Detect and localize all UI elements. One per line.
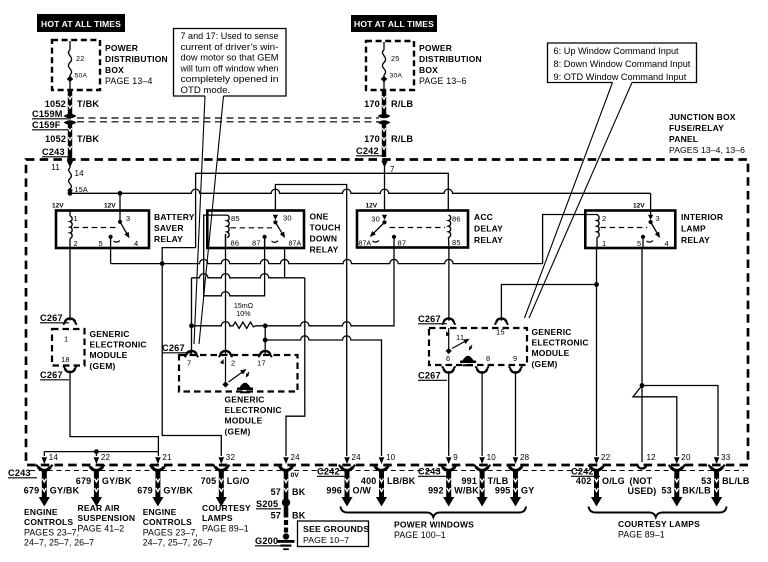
svg-text:LAMP: LAMP	[681, 224, 706, 234]
svg-text:14: 14	[49, 453, 59, 462]
svg-text:dow motor so that GEM: dow motor so that GEM	[181, 53, 279, 64]
svg-text:ELECTRONIC: ELECTRONIC	[225, 405, 282, 415]
svg-text:996: 996	[326, 486, 342, 496]
svg-text:1052: 1052	[45, 99, 66, 109]
svg-text:53: 53	[661, 486, 671, 496]
svg-text:9: OTD Window Command Input: 9: OTD Window Command Input	[554, 72, 687, 82]
svg-text:BK: BK	[292, 487, 306, 497]
svg-text:INTERIOR: INTERIOR	[681, 212, 723, 222]
svg-text:86: 86	[231, 239, 240, 248]
svg-text:1: 1	[602, 239, 606, 248]
svg-text:25: 25	[391, 54, 400, 63]
svg-text:T/LB: T/LB	[488, 476, 509, 486]
svg-text:87: 87	[252, 239, 261, 248]
svg-text:PAGE 13–4: PAGE 13–4	[105, 76, 153, 86]
svg-text:GENERIC: GENERIC	[532, 327, 572, 337]
svg-text:PAGES 23–7,: PAGES 23–7,	[143, 527, 198, 537]
svg-text:991: 991	[461, 476, 477, 486]
svg-text:BL/LB: BL/LB	[722, 476, 750, 486]
svg-text:11: 11	[456, 333, 464, 342]
svg-text:O/W: O/W	[353, 486, 372, 496]
svg-text:705: 705	[201, 476, 217, 486]
svg-text:87A: 87A	[289, 241, 302, 248]
svg-text:3: 3	[656, 214, 660, 223]
svg-text:JUNCTION BOX: JUNCTION BOX	[669, 112, 736, 122]
svg-text:ELECTRONIC: ELECTRONIC	[90, 340, 147, 350]
svg-text:O/LG: O/LG	[602, 476, 625, 486]
svg-text:R/LB: R/LB	[391, 134, 413, 144]
svg-text:10: 10	[487, 453, 497, 462]
svg-text:12: 12	[647, 453, 657, 462]
svg-text:PAGE 100–1: PAGE 100–1	[394, 530, 446, 540]
svg-text:6: 6	[446, 354, 450, 363]
svg-text:RELAY: RELAY	[681, 235, 710, 245]
svg-text:CONTROLS: CONTROLS	[143, 517, 192, 527]
svg-text:T/BK: T/BK	[77, 99, 99, 109]
svg-text:C267: C267	[418, 314, 441, 324]
svg-text:2: 2	[74, 239, 78, 248]
svg-text:12V: 12V	[633, 203, 645, 210]
svg-text:53: 53	[701, 476, 711, 486]
svg-text:679: 679	[76, 476, 92, 486]
svg-text:15A: 15A	[75, 185, 88, 194]
svg-text:POWER: POWER	[419, 43, 452, 53]
svg-text:32: 32	[226, 453, 236, 462]
svg-text:C243: C243	[8, 468, 31, 478]
svg-text:C267: C267	[40, 313, 63, 323]
svg-text:CONTROLS: CONTROLS	[24, 517, 73, 527]
svg-text:USED): USED)	[628, 486, 657, 496]
svg-text:1052: 1052	[45, 134, 66, 144]
svg-text:FUSE/RELAY: FUSE/RELAY	[669, 123, 724, 133]
svg-text:1: 1	[74, 214, 78, 223]
svg-text:RELAY: RELAY	[310, 245, 339, 255]
svg-text:C267: C267	[162, 343, 185, 353]
svg-text:18: 18	[61, 355, 70, 364]
svg-text:LB/BK: LB/BK	[387, 476, 416, 486]
svg-text:GENERIC: GENERIC	[225, 395, 265, 405]
svg-text:R/LB: R/LB	[391, 99, 413, 109]
svg-text:BK/LB: BK/LB	[682, 486, 711, 496]
svg-text:BOX: BOX	[419, 65, 438, 75]
svg-text:21: 21	[162, 453, 172, 462]
svg-text:C243: C243	[418, 467, 441, 477]
svg-text:GY/BK: GY/BK	[163, 486, 193, 496]
svg-text:57: 57	[271, 487, 281, 497]
svg-text:30: 30	[283, 214, 292, 223]
svg-text:400: 400	[361, 476, 377, 486]
svg-text:8: Down Window Command Input: 8: Down Window Command Input	[554, 59, 691, 69]
svg-text:completely opened in: completely opened in	[181, 74, 279, 85]
svg-text:BK: BK	[292, 511, 306, 521]
svg-text:REAR AIR: REAR AIR	[78, 503, 120, 513]
svg-text:HOT AT ALL TIMES: HOT AT ALL TIMES	[41, 19, 121, 29]
svg-text:T/BK: T/BK	[77, 134, 99, 144]
svg-text:MODULE: MODULE	[90, 350, 128, 360]
svg-text:9: 9	[513, 354, 517, 363]
svg-text:12V: 12V	[52, 203, 64, 210]
svg-text:BOX: BOX	[105, 65, 124, 75]
svg-text:PAGE 89–1: PAGE 89–1	[202, 523, 249, 533]
svg-text:24: 24	[352, 453, 362, 462]
svg-text:4: 4	[134, 239, 138, 248]
svg-text:DISTRIBUTION: DISTRIBUTION	[105, 54, 168, 64]
svg-text:SUSPENSION: SUSPENSION	[78, 513, 136, 523]
svg-text:ACC: ACC	[474, 212, 493, 222]
svg-text:7: 7	[390, 165, 395, 174]
svg-text:(NOT: (NOT	[630, 476, 653, 486]
svg-text:TOUCH: TOUCH	[310, 223, 341, 233]
svg-text:24–7, 25–7, 26–7: 24–7, 25–7, 26–7	[143, 537, 213, 547]
svg-text:28: 28	[520, 453, 530, 462]
svg-text:C242: C242	[571, 467, 594, 477]
svg-text:679: 679	[137, 486, 153, 496]
svg-text:OTD mode.: OTD mode.	[181, 85, 231, 96]
svg-text:MODULE: MODULE	[532, 348, 570, 358]
svg-text:85: 85	[231, 214, 240, 223]
svg-text:1: 1	[64, 335, 68, 344]
svg-text:GY: GY	[521, 486, 534, 496]
svg-text:ENGINE: ENGINE	[143, 507, 177, 517]
svg-text:GENERIC: GENERIC	[90, 329, 130, 339]
svg-text:COURTESY: COURTESY	[202, 503, 251, 513]
svg-text:(GEM): (GEM)	[225, 426, 251, 436]
svg-text:PAGE 89–1: PAGE 89–1	[618, 530, 665, 540]
svg-text:3: 3	[126, 214, 130, 223]
svg-text:HOT AT ALL TIMES: HOT AT ALL TIMES	[354, 19, 434, 29]
svg-text:C267: C267	[418, 371, 441, 381]
svg-text:MODULE: MODULE	[225, 416, 263, 426]
svg-text:COURTESY LAMPS: COURTESY LAMPS	[618, 519, 700, 529]
svg-text:(GEM): (GEM)	[532, 359, 558, 369]
svg-text:PAGES 23–7,: PAGES 23–7,	[24, 527, 79, 537]
svg-text:C243: C243	[42, 147, 65, 157]
svg-text:992: 992	[428, 486, 444, 496]
svg-text:170: 170	[364, 134, 380, 144]
svg-text:402: 402	[576, 476, 592, 486]
svg-text:LG/O: LG/O	[227, 476, 250, 486]
svg-text:30A: 30A	[390, 73, 403, 80]
svg-text:PAGE 41–2: PAGE 41–2	[78, 523, 125, 533]
svg-text:10%: 10%	[236, 309, 251, 318]
svg-text:86: 86	[452, 215, 461, 224]
svg-text:GY/BK: GY/BK	[50, 486, 80, 496]
svg-text:8: 8	[486, 354, 490, 363]
svg-text:7: 7	[187, 359, 191, 368]
svg-text:POWER WINDOWS: POWER WINDOWS	[394, 520, 474, 530]
svg-text:RELAY: RELAY	[154, 234, 183, 244]
svg-text:2: 2	[231, 359, 235, 368]
svg-text:PAGE 13–6: PAGE 13–6	[419, 76, 467, 86]
svg-text:C242: C242	[356, 146, 379, 156]
svg-text:ENGINE: ENGINE	[24, 507, 58, 517]
svg-text:ELECTRONIC: ELECTRONIC	[532, 338, 589, 348]
svg-text:PAGE 10–7: PAGE 10–7	[303, 535, 349, 545]
svg-text:W/BK: W/BK	[454, 486, 479, 496]
svg-text:12V: 12V	[366, 203, 378, 210]
svg-text:S205: S205	[256, 499, 278, 509]
svg-text:C242: C242	[317, 467, 340, 477]
svg-text:(GEM): (GEM)	[90, 361, 116, 371]
svg-text:C159F: C159F	[32, 120, 61, 130]
svg-text:RELAY: RELAY	[474, 235, 503, 245]
svg-text:5: 5	[637, 239, 641, 248]
svg-text:C267: C267	[40, 370, 63, 380]
svg-text:BATTERY: BATTERY	[154, 212, 195, 222]
svg-text:6: Up Window Command Input: 6: Up Window Command Input	[554, 46, 680, 56]
svg-text:22: 22	[601, 453, 611, 462]
svg-text:GY/BK: GY/BK	[102, 476, 132, 486]
svg-text:10: 10	[386, 453, 396, 462]
svg-text:33: 33	[721, 453, 731, 462]
svg-text:87: 87	[398, 239, 407, 248]
svg-text:SEE GROUNDS: SEE GROUNDS	[303, 524, 369, 534]
svg-text:20: 20	[681, 453, 691, 462]
svg-text:7 and 17: Used to sense: 7 and 17: Used to sense	[181, 31, 279, 42]
svg-text:24: 24	[291, 453, 301, 462]
svg-text:9: 9	[453, 453, 458, 462]
svg-text:17: 17	[257, 359, 266, 368]
svg-text:22: 22	[76, 54, 85, 63]
svg-text:0V: 0V	[291, 472, 300, 479]
svg-text:LAMPS: LAMPS	[202, 513, 233, 523]
svg-text:DELAY: DELAY	[474, 224, 503, 234]
svg-text:5: 5	[99, 239, 103, 248]
svg-text:PAGES 13–4, 13–6: PAGES 13–4, 13–6	[669, 145, 745, 155]
svg-text:will turn off window when: will turn off window when	[180, 63, 279, 74]
svg-text:11: 11	[51, 163, 60, 172]
svg-text:679: 679	[24, 486, 40, 496]
svg-text:SAVER: SAVER	[154, 223, 184, 233]
svg-text:DISTRIBUTION: DISTRIBUTION	[419, 54, 482, 64]
svg-text:14: 14	[75, 169, 85, 178]
svg-text:170: 170	[364, 99, 380, 109]
svg-text:PANEL: PANEL	[669, 134, 698, 144]
svg-text:50A: 50A	[75, 73, 88, 80]
svg-text:C159M: C159M	[32, 109, 63, 119]
svg-text:ONE: ONE	[310, 212, 329, 222]
svg-text:24–7, 25–7, 26–7: 24–7, 25–7, 26–7	[24, 537, 94, 547]
svg-text:2: 2	[602, 214, 606, 223]
svg-text:57: 57	[271, 511, 281, 521]
svg-text:22: 22	[101, 453, 111, 462]
svg-text:15: 15	[496, 328, 505, 337]
svg-text:G200: G200	[255, 536, 278, 546]
svg-text:DOWN: DOWN	[310, 234, 338, 244]
svg-text:995: 995	[495, 486, 511, 496]
svg-text:12V: 12V	[104, 203, 116, 210]
svg-text:87A: 87A	[359, 241, 372, 248]
svg-text:current of driver’s win-: current of driver’s win-	[181, 42, 279, 53]
svg-text:POWER: POWER	[105, 43, 138, 53]
svg-text:85: 85	[452, 238, 461, 247]
svg-text:4: 4	[665, 239, 669, 248]
svg-text:30: 30	[371, 215, 380, 224]
